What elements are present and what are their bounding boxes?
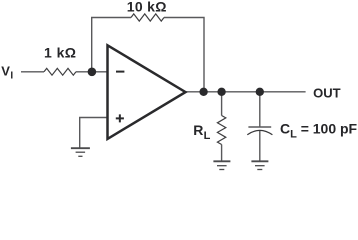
svg-text:OUT: OUT — [313, 86, 341, 101]
svg-text:1 kΩ: 1 kΩ — [44, 45, 77, 61]
svg-text:V: V — [1, 64, 10, 79]
svg-text:L: L — [290, 128, 297, 140]
svg-text:= 100 pF: = 100 pF — [301, 120, 358, 136]
svg-text:I: I — [10, 71, 13, 82]
svg-text:10 kΩ: 10 kΩ — [127, 0, 167, 15]
svg-text:R: R — [193, 122, 203, 138]
svg-text:L: L — [204, 130, 211, 142]
svg-text:C: C — [280, 120, 290, 136]
